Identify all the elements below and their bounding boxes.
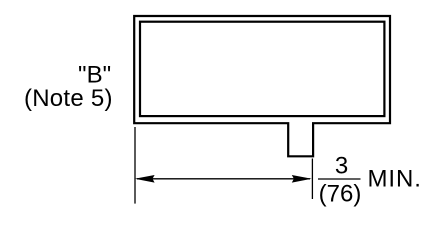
svg-text:(76): (76)	[319, 180, 362, 207]
svg-text:3: 3	[335, 153, 348, 180]
svg-text:(Note 5): (Note 5)	[24, 85, 113, 112]
svg-text:MIN.: MIN.	[368, 165, 422, 192]
